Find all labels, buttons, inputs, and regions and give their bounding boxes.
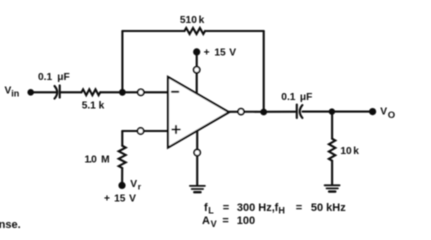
wire C1 to R 5.1k (61, 91, 82, 93)
resistor 510k (185, 28, 206, 34)
svg-text:V: V (211, 219, 217, 229)
svg-text:15: 15 (214, 47, 226, 58)
pin open circle V+ (194, 67, 200, 73)
resistor 10k (329, 139, 335, 161)
wire R1.0M to Vr terminal (121, 168, 123, 185)
svg-text:H: H (278, 205, 285, 215)
wire R5.1k to op-amp inverting input (100, 91, 168, 93)
capacitor C1 0.1uF straight plate (59, 85, 61, 97)
svg-text:0: 0 (91, 155, 97, 166)
wire 10k branch upper (331, 112, 333, 139)
svg-text:300 Hz,: 300 Hz, (237, 202, 275, 214)
node junction feedback to output (261, 109, 266, 114)
wire feedback vertical right (263, 31, 265, 112)
op-amp plus sign (172, 126, 179, 133)
capacitor C1 0.1uF curved plate (55, 86, 58, 99)
svg-text:5.1 k: 5.1 k (82, 100, 105, 111)
svg-text:V: V (380, 106, 387, 117)
wire op-amp output (229, 111, 295, 113)
svg-text:10: 10 (340, 146, 352, 157)
svg-text:510: 510 (180, 15, 197, 26)
svg-text:in: in (11, 88, 19, 98)
svg-text:0.1: 0.1 (38, 72, 52, 83)
svg-text:V: V (129, 194, 136, 205)
svg-text:=: = (222, 215, 228, 227)
svg-text:100: 100 (237, 215, 255, 227)
node junction 10k tap (329, 109, 334, 114)
ground under 10k (325, 185, 340, 188)
svg-text:=: = (296, 202, 302, 214)
wire 10k branch lower to ground (331, 161, 333, 185)
wire feedback horizontal left (122, 30, 184, 32)
resistor 5.1k (82, 89, 101, 95)
node Vr terminal (119, 183, 125, 189)
wire Vin to C1 (33, 91, 56, 93)
svg-text:+: + (204, 47, 210, 58)
wire non-inverting vertical down to R 1.0M (121, 131, 123, 146)
node Vo terminal (370, 109, 376, 115)
node junction feedback tap (120, 90, 125, 95)
svg-text:0.1: 0.1 (281, 92, 295, 103)
op-amp U1 triangle (168, 77, 229, 148)
pin open circle inverting input (138, 89, 144, 95)
wire feedback vertical left (121, 31, 123, 92)
svg-text:50 kHz: 50 kHz (311, 202, 346, 214)
wire non-inverting horizontal (122, 130, 168, 132)
svg-text:A: A (202, 215, 210, 227)
svg-text:M: M (101, 155, 110, 166)
svg-text:O: O (388, 110, 395, 121)
svg-text:k: k (199, 15, 205, 26)
svg-text:μF: μF (300, 92, 312, 103)
node Vin terminal (28, 90, 33, 95)
svg-text:k: k (353, 146, 359, 157)
wire C2 to Vo (303, 111, 373, 113)
op-amp minus sign (172, 91, 178, 93)
pin open circle non-inverting input (138, 128, 144, 134)
svg-text:μF: μF (57, 72, 69, 83)
svg-text:L: L (208, 205, 214, 215)
pin open circle output (238, 109, 244, 115)
wire feedback horizontal right (205, 30, 264, 32)
capacitor C2 0.1uF curved plate (300, 105, 303, 118)
capacitor C2 0.1uF straight plate (296, 105, 298, 118)
wire V+ pin vertical (196, 53, 198, 93)
ground under op-amp (190, 186, 205, 189)
svg-text:+: + (104, 194, 110, 205)
svg-text:nse.: nse. (0, 219, 21, 231)
node +15V terminal top (194, 49, 200, 55)
svg-text:=: = (223, 202, 229, 214)
svg-text:15: 15 (114, 194, 126, 205)
pin open circle V- (194, 150, 200, 156)
wire V- pin vertical to ground (196, 131, 198, 185)
svg-text:V: V (130, 179, 137, 190)
svg-text:V: V (229, 47, 236, 58)
resistor 1.0M (119, 146, 126, 168)
